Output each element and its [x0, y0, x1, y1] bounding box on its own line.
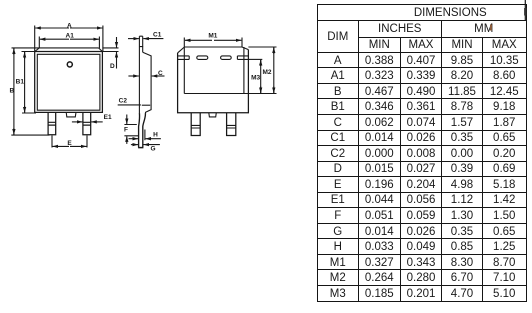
svg-text:A: A	[67, 23, 72, 30]
svg-text:G: G	[150, 146, 155, 153]
svg-text:E1: E1	[104, 114, 112, 121]
svg-text:B1: B1	[16, 78, 25, 85]
svg-text:M3: M3	[251, 75, 260, 82]
svg-text:M2: M2	[262, 69, 271, 76]
svg-text:F: F	[124, 127, 128, 134]
svg-text:H: H	[153, 131, 158, 138]
svg-text:C: C	[158, 70, 163, 77]
svg-text:C1: C1	[153, 32, 162, 39]
svg-text:E: E	[67, 140, 72, 147]
svg-text:C2: C2	[119, 98, 128, 105]
svg-text:A1: A1	[66, 33, 75, 40]
svg-text:M1: M1	[208, 32, 217, 39]
svg-text:D: D	[110, 63, 115, 70]
svg-text:B: B	[9, 87, 14, 94]
